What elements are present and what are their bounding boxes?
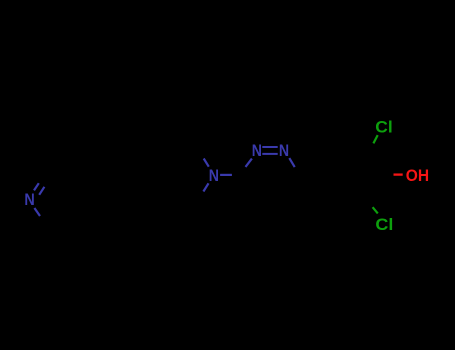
top Cl-C bond stub <box>373 135 377 143</box>
svg-text:N: N <box>24 190 34 209</box>
bottom Cl-C bond stub <box>373 207 378 213</box>
pyridine N-C6 single bond stub <box>34 208 40 216</box>
pyridazine N2=N1 double bond, lower line <box>262 153 277 155</box>
svg-text:Cl: Cl <box>375 117 392 136</box>
svg-text:Cl: Cl <box>375 215 393 234</box>
pyridine C2=N double bond, outer dash <box>34 183 39 190</box>
piperidine N to pyridazine C3 bond <box>220 174 232 176</box>
svg-text:OH: OH <box>406 166 429 185</box>
O-C bond stub <box>394 173 403 175</box>
pyridazine N2-C3 bond stub <box>246 159 252 167</box>
pyridazine N2=N1 double bond, upper line <box>262 146 277 148</box>
svg-text:N: N <box>279 141 289 160</box>
piperidine N lower-left bond stub <box>203 183 208 191</box>
svg-text:N: N <box>252 141 262 160</box>
piperidine N upper-left bond stub <box>204 159 209 167</box>
pyridazine N1-C6 bond stub <box>289 158 294 167</box>
svg-text:N: N <box>209 166 219 185</box>
pyridine C2=N double bond, inner dash <box>39 187 44 195</box>
